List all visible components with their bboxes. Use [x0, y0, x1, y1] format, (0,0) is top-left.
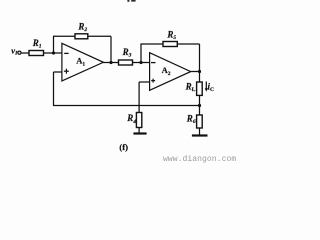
svg-text:(f): (f) [119, 142, 128, 152]
op-amp A2 [150, 53, 191, 91]
resistor R1 [29, 51, 44, 56]
node C: junction dot at A2 input [139, 61, 142, 64]
wire: terminal to R1 [21, 52, 29, 54]
node B: junction dot A1 output / R2 [109, 61, 112, 64]
wire: feedback tap up from node A [53, 36, 55, 53]
svg-text:www.diangon.com: www.diangon.com [163, 155, 236, 164]
resistor R2 [75, 34, 88, 39]
wire: A2 output [191, 71, 200, 73]
resistor RL [197, 82, 203, 95]
wire: R5 right down to A2 output [177, 43, 199, 45]
wire: bottom rail [53, 105, 200, 107]
resistor R3 [119, 60, 133, 65]
current arrow iC [205, 82, 207, 89]
partial caption (e) clipped at top edge [127, 0, 135, 2]
wire: R3 to A2 inverting input [133, 62, 150, 64]
resistor R6 [197, 115, 203, 128]
node D: junction dot A2 output [198, 70, 201, 73]
wire: up to R2 left [53, 35, 75, 37]
wire: feedback tap up from node C [140, 44, 142, 63]
node A: junction dot at A1 input [52, 51, 55, 54]
node E: junction dot rail/R6 [198, 104, 201, 107]
wire: R1 to A1 inverting input [44, 52, 62, 54]
ground (R6) [199, 128, 201, 135]
wire: down to RL [199, 72, 201, 83]
wire: A2 plus input down to rail [139, 81, 150, 83]
wire: R2 right to A1 output [88, 35, 111, 37]
wire: A1 output to R3 [103, 62, 118, 64]
resistor R4 [136, 113, 141, 128]
op-amp A1 [62, 43, 104, 81]
wire: A1 plus input down to rail [54, 71, 62, 73]
ground (R4) [138, 128, 140, 133]
resistor R5 [163, 42, 177, 47]
wire: RL to rail [199, 95, 201, 115]
